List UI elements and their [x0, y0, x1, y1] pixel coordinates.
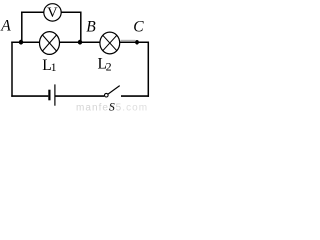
svg-text:B: B — [86, 19, 96, 36]
svg-text:S: S — [109, 102, 115, 114]
svg-text:L2: L2 — [98, 55, 112, 73]
svg-text:V: V — [47, 5, 58, 21]
svg-text:A: A — [0, 17, 11, 34]
svg-text:L1: L1 — [42, 57, 56, 74]
svg-text:C: C — [133, 18, 144, 35]
